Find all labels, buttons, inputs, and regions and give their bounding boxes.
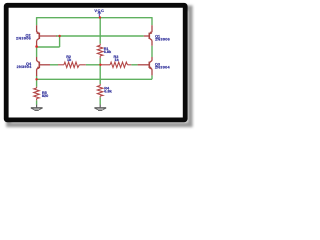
resistor R1 6.8k (vertical)	[97, 44, 102, 58]
wire left rail drop to Q2 emitter	[36, 17, 38, 25]
VCC power symbol	[94, 8, 104, 17]
wire base net row (Q2 base to Q1 base)	[56, 35, 144, 37]
wire R1 bottom to junction to R4 top	[99, 58, 101, 84]
svg-text:2N3904: 2N3904	[155, 66, 171, 70]
node Q2 collector junction dot	[35, 45, 38, 48]
svg-text:6.8k: 6.8k	[104, 50, 112, 54]
svg-text:2N3906: 2N3906	[155, 38, 170, 42]
wire R4 bottom to ground	[99, 97, 101, 104]
svg-text:2N3906: 2N3906	[16, 36, 31, 40]
wire R2 to mid junction	[86, 64, 101, 66]
wire Q1 collector to Q3 collector	[151, 46, 153, 57]
wire jog up from collector row to base net	[59, 36, 61, 47]
transistor Q3 (NPN 2N3904)	[138, 57, 153, 75]
wire emitter rail	[37, 78, 152, 80]
wire rail to R5	[36, 79, 38, 87]
svg-text:6.8k: 6.8k	[104, 90, 112, 94]
wire Q4 base to R2	[50, 64, 58, 66]
resistor R3 1k (horizontal)	[100, 62, 131, 67]
transistor Q1 (PNP 2N3906)	[144, 25, 152, 46]
node Q4 emitter junction dot	[35, 78, 37, 80]
wire Q2 collector to Q4 collector	[36, 47, 38, 57]
node mid resistor junction dot	[99, 64, 101, 66]
transistor Q2 (PNP 2N3906, mirrored)	[36, 25, 56, 46]
wire Q2 collector row	[37, 46, 60, 48]
resistor R5 820 (vertical)	[34, 87, 39, 101]
resistor R2 1k (horizontal)	[58, 62, 86, 67]
wire Q4 emitter to rail	[36, 76, 38, 80]
ground (below R4)	[94, 105, 106, 111]
transistor Q4 (NPN 2N3904, mirrored)	[37, 57, 51, 76]
node base-net jog junction dot	[58, 35, 60, 37]
resistor R4 6.8k (vertical)	[97, 84, 102, 97]
svg-text:820: 820	[42, 94, 48, 98]
ground (below R5)	[31, 105, 43, 111]
wire VCC rail top	[37, 17, 152, 19]
wire R5 bottom to ground	[36, 100, 38, 105]
wire R3 to Q3 base	[131, 64, 137, 66]
wire VCC column down to R1	[99, 18, 101, 44]
node VCC junction dot	[99, 16, 101, 18]
svg-text:2N3904: 2N3904	[17, 65, 33, 69]
wire Q3 emitter corner to rail	[151, 75, 153, 79]
wire right rail drop to Q1 emitter	[151, 17, 153, 25]
